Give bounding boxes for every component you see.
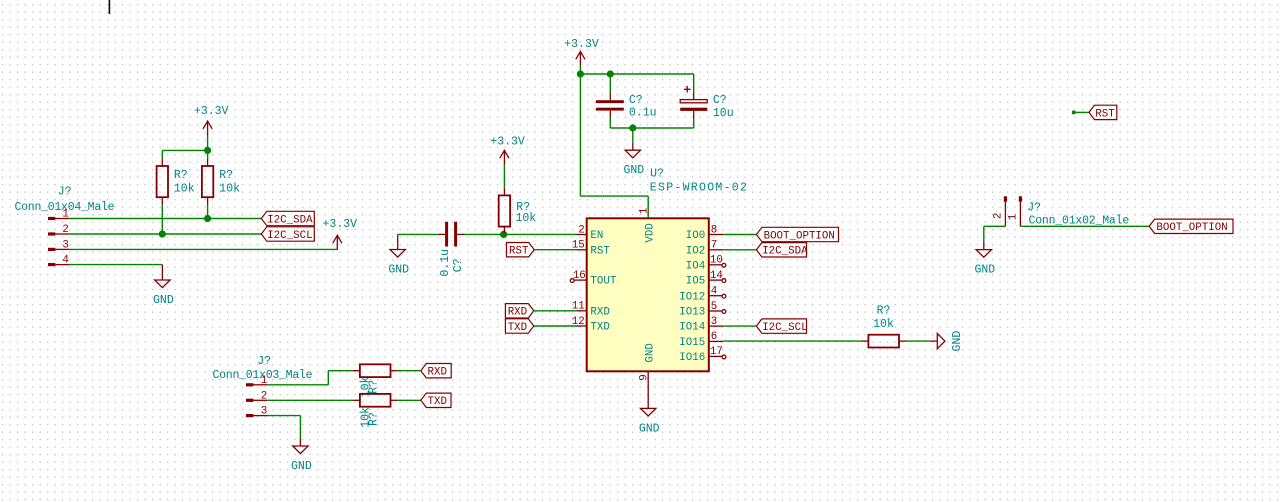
global label TXD xyxy=(505,319,533,334)
wire xyxy=(69,248,337,250)
power GND PWR11 xyxy=(974,242,995,277)
wire xyxy=(267,399,352,401)
wire xyxy=(207,205,209,219)
svg-text:J?: J? xyxy=(257,355,271,368)
svg-text:IO5: IO5 xyxy=(686,276,705,288)
svg-text:3: 3 xyxy=(261,406,267,418)
svg-text:10k: 10k xyxy=(516,212,537,225)
svg-text:TXD: TXD xyxy=(428,396,447,408)
wire xyxy=(723,325,756,327)
svg-text:0.1u: 0.1u xyxy=(629,107,657,120)
junction xyxy=(577,70,584,77)
svg-text:+3.3V: +3.3V xyxy=(323,218,358,231)
resistor R? 10k (right pull-up) xyxy=(202,159,240,205)
svg-text:7: 7 xyxy=(711,240,717,252)
svg-text:GND: GND xyxy=(623,164,644,177)
global label RST xyxy=(1089,105,1117,120)
wire xyxy=(907,340,930,342)
wire xyxy=(464,233,578,235)
svg-text:RST: RST xyxy=(590,245,610,257)
svg-text:R?: R? xyxy=(367,412,380,426)
svg-text:TXD: TXD xyxy=(590,322,609,334)
svg-text:RXD: RXD xyxy=(508,307,527,319)
svg-text:+3.3V: +3.3V xyxy=(564,38,599,51)
svg-text:+3.3V: +3.3V xyxy=(490,136,525,149)
svg-text:3: 3 xyxy=(62,240,68,252)
wire xyxy=(267,371,352,385)
svg-text:I2C_SDA: I2C_SDA xyxy=(267,214,313,226)
svg-text:+3.3V: +3.3V xyxy=(194,105,229,118)
wire xyxy=(647,383,649,401)
svg-text:R?: R? xyxy=(367,380,380,394)
svg-text:4: 4 xyxy=(62,255,68,267)
wire xyxy=(69,264,162,266)
resistor R? 10k (RXD series) xyxy=(352,364,397,397)
svg-text:GND: GND xyxy=(639,422,660,435)
svg-text:9: 9 xyxy=(638,374,650,380)
svg-text:J?: J? xyxy=(58,186,72,199)
svg-text:1: 1 xyxy=(1008,214,1020,220)
wire xyxy=(398,233,438,235)
IC U? ESP-WROOM-02 body xyxy=(587,168,749,372)
svg-text:R?: R? xyxy=(219,169,233,182)
wire xyxy=(69,218,261,220)
global label I2C_SCL xyxy=(756,319,807,334)
capacitor C? 0.1u (series on EN) xyxy=(438,222,465,277)
wire xyxy=(984,226,1006,242)
svg-text:RXD: RXD xyxy=(590,307,609,319)
resistor R? 10k (left pull-up) xyxy=(157,159,195,205)
svg-text:GND: GND xyxy=(645,343,657,362)
power GND PWR04 xyxy=(388,234,409,276)
svg-text:U?: U? xyxy=(650,168,664,181)
junction xyxy=(159,230,166,237)
pin 2 EN xyxy=(577,224,603,242)
resistor R? 10k (TXD series) xyxy=(352,394,397,428)
wire VDD feed xyxy=(580,196,648,218)
power GND PWR03 xyxy=(153,265,174,307)
svg-text:15: 15 xyxy=(572,240,585,252)
svg-text:2: 2 xyxy=(993,213,1005,219)
pin 5 IO13 xyxy=(679,301,726,319)
pin 15 RST xyxy=(572,240,611,258)
pin 14 IO5 xyxy=(686,270,726,288)
svg-text:RST: RST xyxy=(509,246,529,258)
svg-text:C?: C? xyxy=(452,258,465,272)
svg-text:2: 2 xyxy=(62,224,68,236)
svg-text:I2C_SCL: I2C_SCL xyxy=(762,322,807,334)
resistor R? 10k (IO15) xyxy=(861,304,907,347)
svg-text:1: 1 xyxy=(261,375,267,387)
global label I2C_SDA xyxy=(261,211,314,226)
global label I2C_SDA xyxy=(756,243,808,258)
connector J? Conn_01x02_Male xyxy=(993,196,1130,227)
capacitor C? 0.1u (decoupling) xyxy=(596,74,657,128)
svg-text:I2C_SDA: I2C_SDA xyxy=(762,246,808,258)
svg-text:J?: J? xyxy=(1027,201,1041,214)
svg-text:6: 6 xyxy=(711,331,717,343)
svg-text:1: 1 xyxy=(62,209,68,221)
pin 16 TOUT xyxy=(570,270,617,288)
svg-text:10k: 10k xyxy=(219,183,240,196)
global label BOOT_OPTION xyxy=(1149,219,1233,234)
wire xyxy=(398,399,421,401)
wire xyxy=(723,340,861,342)
svg-text:10u: 10u xyxy=(713,107,734,120)
svg-text:10k: 10k xyxy=(174,183,195,196)
pin 4 IO12 xyxy=(679,286,726,304)
svg-text:TXD: TXD xyxy=(508,322,527,334)
svg-text:C?: C? xyxy=(713,94,727,107)
wire xyxy=(723,234,756,236)
svg-text:2: 2 xyxy=(578,224,584,236)
svg-text:GND: GND xyxy=(153,294,174,307)
wire xyxy=(632,128,634,143)
svg-text:5: 5 xyxy=(711,301,717,313)
svg-text:8: 8 xyxy=(711,224,717,236)
svg-text:R?: R? xyxy=(174,169,188,182)
svg-text:BOOT_OPTION: BOOT_OPTION xyxy=(1156,222,1227,234)
svg-text:IO15: IO15 xyxy=(679,337,705,349)
pin 10 IO4 xyxy=(686,255,726,273)
wire xyxy=(1020,225,1149,227)
svg-text:0.1u: 0.1u xyxy=(439,249,452,277)
svg-text:IO12: IO12 xyxy=(679,291,705,303)
svg-text:17: 17 xyxy=(710,346,723,358)
svg-text:10k: 10k xyxy=(873,318,894,331)
wire xyxy=(162,136,207,159)
pin 12 TXD xyxy=(572,316,610,334)
power +3.3V PWR01 xyxy=(194,105,229,136)
power GND PWR07 xyxy=(623,143,644,178)
svg-text:10: 10 xyxy=(710,255,723,267)
connector J? Conn_01x04_Male xyxy=(15,186,115,267)
svg-text:16: 16 xyxy=(573,270,586,282)
pin 1 VDD xyxy=(638,208,656,243)
svg-text:RXD: RXD xyxy=(428,367,447,379)
wire xyxy=(398,370,421,372)
junction xyxy=(204,147,211,154)
power GND PWR08 (rotated) xyxy=(930,331,964,352)
svg-text:C?: C? xyxy=(629,94,643,107)
svg-text:IO4: IO4 xyxy=(686,260,705,272)
svg-text:EN: EN xyxy=(590,230,603,242)
global label RXD xyxy=(505,304,533,319)
svg-text:IO0: IO0 xyxy=(686,230,705,242)
svg-text:1: 1 xyxy=(638,208,650,214)
power GND PWR09 xyxy=(639,401,660,436)
power +3.3V PWR06 xyxy=(564,38,599,66)
wire xyxy=(69,233,261,235)
wire xyxy=(534,310,578,312)
wire xyxy=(579,66,581,196)
svg-text:IO13: IO13 xyxy=(679,307,705,319)
pin 17 IO16 xyxy=(679,346,726,364)
global label I2C_SCL xyxy=(261,227,314,242)
svg-text:12: 12 xyxy=(572,316,585,328)
wire xyxy=(267,416,300,439)
svg-text:RST: RST xyxy=(1095,108,1115,120)
wire xyxy=(723,249,756,251)
wire (dangling RST stub) xyxy=(1072,111,1089,115)
wire xyxy=(161,205,163,234)
junction xyxy=(629,124,636,131)
svg-text:IO16: IO16 xyxy=(679,352,705,364)
wire xyxy=(610,127,693,129)
svg-text:GND: GND xyxy=(974,264,995,277)
junction xyxy=(500,231,507,238)
svg-text:BOOT_OPTION: BOOT_OPTION xyxy=(764,230,835,242)
pin 6 IO15 xyxy=(679,331,723,349)
svg-text:4: 4 xyxy=(711,286,717,298)
global label BOOT_OPTION xyxy=(756,227,838,242)
svg-text:14: 14 xyxy=(710,270,723,282)
svg-text:GND: GND xyxy=(951,331,964,352)
connector J? Conn_01x03_Male xyxy=(213,355,313,418)
pin 11 RXD xyxy=(572,301,610,319)
svg-text:GND: GND xyxy=(388,264,409,277)
svg-text:IO2: IO2 xyxy=(686,245,705,257)
junction xyxy=(607,70,614,77)
svg-text:I2C_SCL: I2C_SCL xyxy=(267,230,312,242)
resistor R? 10k (EN pull-up) xyxy=(499,165,537,235)
wire xyxy=(534,249,577,251)
global label TXD xyxy=(421,393,451,408)
capacitor C? 10u (polarized) xyxy=(680,74,733,128)
svg-text:11: 11 xyxy=(572,301,585,313)
wire xyxy=(534,325,578,327)
svg-text:VDD: VDD xyxy=(645,223,657,242)
svg-text:IO14: IO14 xyxy=(679,322,705,334)
power +3.3V PWR02 xyxy=(323,218,358,250)
svg-text:3: 3 xyxy=(711,316,717,328)
svg-text:GND: GND xyxy=(291,460,312,473)
pin 9 GND xyxy=(638,343,656,383)
pin 3 IO14 xyxy=(679,316,723,334)
power +3.3V PWR05 xyxy=(490,136,525,165)
svg-text:TOUT: TOUT xyxy=(590,276,616,288)
pin 8 IO0 xyxy=(686,224,724,242)
wire xyxy=(580,73,693,75)
svg-text:R?: R? xyxy=(877,304,891,317)
svg-text:2: 2 xyxy=(261,390,267,402)
cursor line xyxy=(108,0,110,14)
global label RXD xyxy=(421,364,451,379)
power GND PWR10 xyxy=(291,439,312,474)
pin 7 IO2 xyxy=(686,240,724,258)
global label RST xyxy=(507,243,535,258)
svg-text:ESP-WROOM-02: ESP-WROOM-02 xyxy=(650,182,748,195)
junction xyxy=(204,215,211,222)
